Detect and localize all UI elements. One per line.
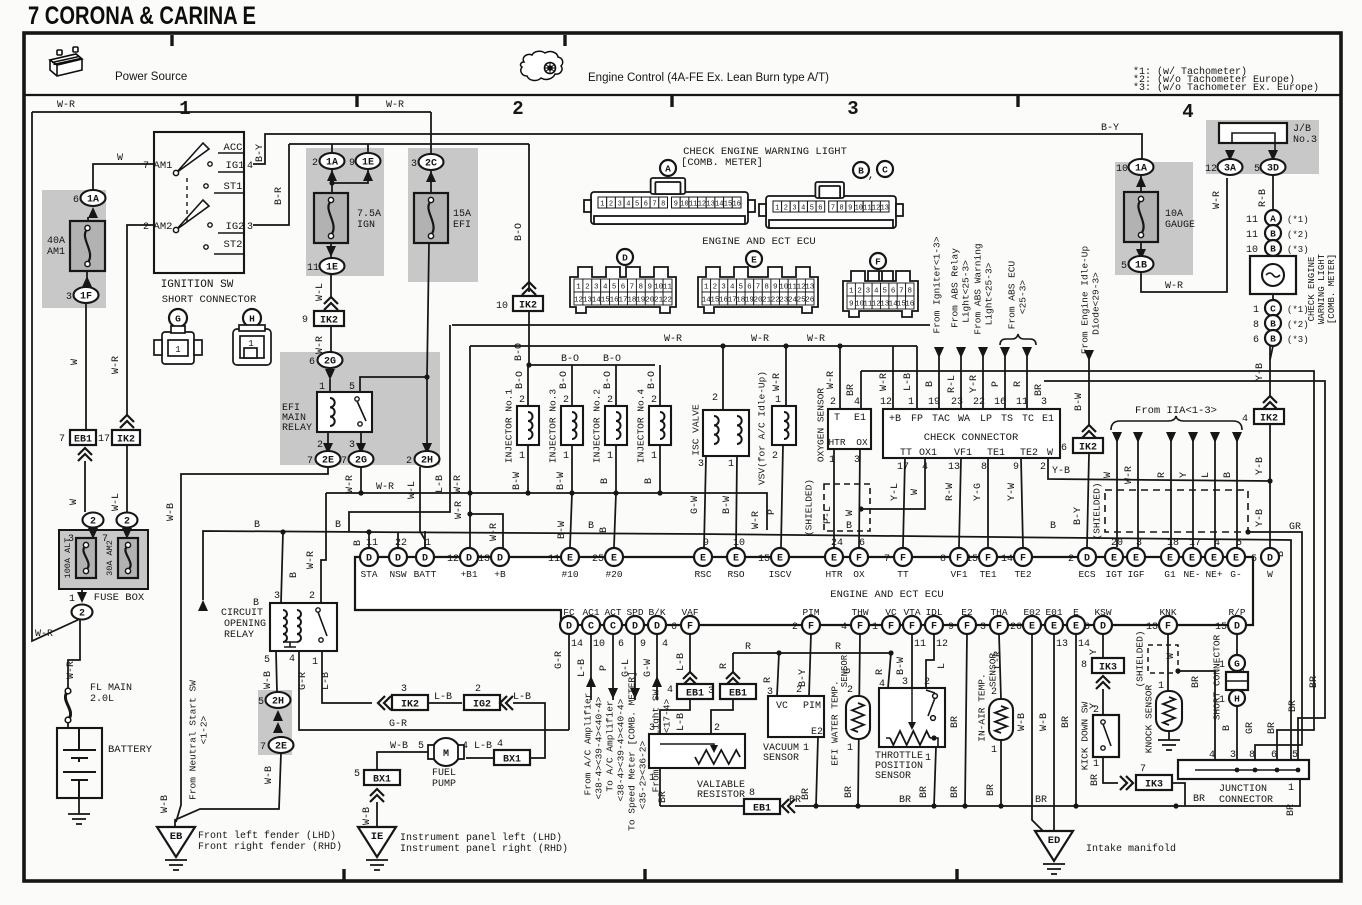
wire pin5 to 2H xyxy=(360,377,427,453)
svg-text:2: 2 xyxy=(585,284,590,292)
svg-text:R/P: R/P xyxy=(1228,607,1245,618)
connector B xyxy=(1265,315,1281,331)
wire injector return xyxy=(659,445,661,493)
svg-text:3: 3 xyxy=(66,292,72,303)
connector IK2 xyxy=(1254,409,1284,425)
svg-text:8: 8 xyxy=(908,288,913,296)
wire Y xyxy=(1102,634,1104,658)
wire BR bus left xyxy=(660,805,746,807)
svg-text:1: 1 xyxy=(728,459,734,470)
ECU pin VF1 xyxy=(950,548,968,566)
svg-text:5: 5 xyxy=(354,769,360,780)
wire BR E1 up xyxy=(860,371,862,409)
svg-text:VTA: VTA xyxy=(903,607,920,618)
svg-text:P: P xyxy=(767,509,778,515)
ECU pin VC xyxy=(882,616,900,634)
svg-text:2: 2 xyxy=(712,393,718,404)
wire injector feed xyxy=(571,365,573,406)
svg-text:D: D xyxy=(422,554,428,565)
svg-text:3: 3 xyxy=(792,205,796,213)
svg-text:VF1: VF1 xyxy=(950,569,967,580)
svg-text:Light<25-3>: Light<25-3> xyxy=(961,260,972,323)
svg-text:PUMP: PUMP xyxy=(432,779,456,790)
svg-text:B: B xyxy=(600,478,611,484)
svg-text:9: 9 xyxy=(703,538,709,549)
ECU pin HTR xyxy=(825,548,843,566)
svg-text:W-L: W-L xyxy=(407,481,418,499)
shading 7.5A IGN xyxy=(306,148,384,276)
junction xyxy=(467,490,472,495)
svg-text:1: 1 xyxy=(847,743,853,754)
svg-text:4: 4 xyxy=(1182,101,1193,123)
connector IK2 xyxy=(392,695,428,711)
svg-text:22: 22 xyxy=(663,297,672,305)
wire G-W xyxy=(656,634,658,700)
wire BR E2 xyxy=(965,634,967,806)
in-air temp capsule xyxy=(989,699,1013,740)
wire xyxy=(1167,660,1169,691)
wire xyxy=(785,346,787,406)
connector IG2 xyxy=(464,695,500,711)
shading 2H 2E xyxy=(258,690,292,755)
wire L xyxy=(1214,440,1216,547)
svg-text:7: 7 xyxy=(1140,764,1146,775)
svg-text:6: 6 xyxy=(309,357,315,368)
ignition lever AM1 xyxy=(173,143,209,176)
svg-text:6: 6 xyxy=(671,622,677,633)
wire W-R left border run xyxy=(32,112,82,641)
svg-text:2: 2 xyxy=(512,98,523,120)
svg-text:7: 7 xyxy=(899,288,904,296)
wire BR rail 371 xyxy=(861,371,1314,760)
arrow IIA xyxy=(1210,432,1220,443)
svg-text:3: 3 xyxy=(411,159,417,170)
svg-text:BR: BR xyxy=(950,716,961,728)
wire W-R +B xyxy=(892,346,894,409)
svg-text:9: 9 xyxy=(647,284,652,292)
ignition contact ST1 xyxy=(204,184,208,188)
wire B to STA xyxy=(368,532,370,548)
svg-text:15A: 15A xyxy=(453,209,471,220)
EFI water temp capsule xyxy=(846,696,870,739)
connector B xyxy=(1265,240,1281,256)
junction xyxy=(998,803,1003,808)
svg-text:W: W xyxy=(910,489,921,495)
ECU pin E xyxy=(1067,616,1085,634)
arrow xyxy=(273,722,283,733)
svg-text:3: 3 xyxy=(698,459,704,470)
wire KNK xyxy=(1167,634,1169,660)
wire to +B xyxy=(470,514,503,548)
svg-text:M: M xyxy=(443,749,449,760)
svg-text:B: B xyxy=(1223,472,1234,478)
svg-text:IG2: IG2 xyxy=(226,221,245,233)
ECU pin PIM xyxy=(802,616,820,634)
svg-text:12: 12 xyxy=(447,554,459,565)
svg-text:B-O: B-O xyxy=(603,354,621,365)
svg-text:2E: 2E xyxy=(275,742,287,753)
wire BR R/P xyxy=(1236,634,1238,655)
svg-text:B/K: B/K xyxy=(648,607,665,618)
relay coil xyxy=(330,398,335,426)
chevron xyxy=(370,789,384,802)
svg-text:1: 1 xyxy=(651,451,657,462)
svg-text:10: 10 xyxy=(680,201,688,209)
svg-text:BR: BR xyxy=(919,786,930,798)
svg-text:9: 9 xyxy=(302,315,308,326)
svg-text:Y-R: Y-R xyxy=(969,375,980,393)
svg-text:L-B: L-B xyxy=(903,373,914,391)
wire xyxy=(330,243,332,257)
connector IK3 xyxy=(1092,658,1124,674)
svg-text:4: 4 xyxy=(922,462,928,473)
svg-text:4: 4 xyxy=(497,739,503,750)
svg-text:B-O: B-O xyxy=(647,371,658,389)
connector 2E xyxy=(269,737,294,753)
svg-text:B-O: B-O xyxy=(559,371,570,389)
wire xyxy=(87,217,89,221)
svg-text:R: R xyxy=(763,677,774,683)
junction xyxy=(1275,768,1280,773)
ECU pin NSW xyxy=(389,548,407,566)
wire link 1A 1E xyxy=(332,170,368,183)
svg-text:(SHIELDED): (SHIELDED) xyxy=(804,479,815,536)
wire W-R gauge loop xyxy=(1141,178,1227,292)
svg-text:17: 17 xyxy=(98,434,110,445)
svg-text:1: 1 xyxy=(991,745,997,756)
svg-text:6: 6 xyxy=(1061,443,1067,454)
svg-text:KNK: KNK xyxy=(1159,607,1176,618)
svg-text:1: 1 xyxy=(576,284,581,292)
svg-text:EB1: EB1 xyxy=(729,689,747,700)
svg-text:IDL: IDL xyxy=(925,607,942,618)
svg-text:4: 4 xyxy=(662,639,668,650)
wire TT xyxy=(903,458,905,547)
svg-text:1: 1 xyxy=(179,98,190,120)
svg-text:NSW: NSW xyxy=(389,569,406,580)
svg-text:*3: (w/o Tachometer Ex. Europ: *3: (w/o Tachometer Ex. Europe) xyxy=(1133,82,1319,94)
svg-text:1: 1 xyxy=(69,594,75,605)
svg-text:ST2: ST2 xyxy=(224,239,243,251)
svg-text:B-Y: B-Y xyxy=(1073,507,1084,525)
svg-text:THA: THA xyxy=(990,607,1007,618)
arrow IIA xyxy=(1166,432,1176,443)
ECU pin BATT xyxy=(416,548,434,566)
svg-text:FC: FC xyxy=(563,607,575,618)
connector 3D xyxy=(1261,159,1286,175)
wire xyxy=(711,700,733,734)
wire W-L to BATT xyxy=(420,467,425,547)
connector D picture pins xyxy=(574,279,673,305)
wire THA xyxy=(999,634,1001,699)
svg-text:1: 1 xyxy=(803,743,809,754)
svg-text:9: 9 xyxy=(674,201,678,209)
svg-text:11: 11 xyxy=(689,201,697,209)
svg-text:BR: BR xyxy=(1286,804,1297,816)
svg-text:9: 9 xyxy=(773,284,778,292)
junction xyxy=(1175,668,1180,673)
wire TE2 xyxy=(1021,458,1023,547)
junction xyxy=(783,343,788,348)
svg-text:IG1: IG1 xyxy=(226,160,245,172)
wire G-R xyxy=(299,651,569,730)
J/B No.3 inner xyxy=(1232,133,1275,152)
svg-text:EB: EB xyxy=(170,831,183,843)
svg-text:LP: LP xyxy=(980,414,992,425)
connector E picture xyxy=(698,267,818,313)
connector 2 xyxy=(117,513,138,528)
svg-text:KNOCK SENSOR: KNOCK SENSOR xyxy=(1144,685,1155,754)
wire B rail long xyxy=(203,531,1291,760)
wire B-W to #10 xyxy=(570,493,572,547)
svg-text:5: 5 xyxy=(258,697,264,708)
svg-text:BR: BR xyxy=(950,786,961,798)
shading EFI main relay xyxy=(280,352,440,465)
wire xyxy=(714,409,723,411)
svg-text:From Igniter<1-3>: From Igniter<1-3> xyxy=(932,236,943,333)
svg-text:(*2): (*2) xyxy=(1287,320,1309,330)
svg-text:IG2: IG2 xyxy=(473,700,491,711)
svg-text:F: F xyxy=(985,554,991,565)
connector IK2 xyxy=(1073,438,1103,454)
svg-text:7: 7 xyxy=(630,284,635,292)
ECU pin KNK xyxy=(1159,616,1177,634)
connector 2E xyxy=(316,451,341,467)
svg-text:B: B xyxy=(254,520,260,531)
svg-text:B-R: B-R xyxy=(274,187,285,205)
throttle potentiometer xyxy=(890,688,937,745)
svg-text:W-R: W-R xyxy=(1124,466,1135,484)
svg-text:2: 2 xyxy=(124,517,130,528)
wire B-Y PIM xyxy=(809,634,811,696)
svg-text:RSC: RSC xyxy=(694,569,711,580)
svg-text:D: D xyxy=(1234,622,1240,633)
tick bottom border 1 xyxy=(342,869,345,880)
svg-text:4: 4 xyxy=(874,288,879,296)
svg-text:2: 2 xyxy=(924,677,930,688)
svg-text:L-R: L-R xyxy=(993,651,1004,669)
connector F picture xyxy=(843,271,918,317)
svg-text:5: 5 xyxy=(635,201,639,209)
svg-text:THW: THW xyxy=(851,607,868,618)
svg-text:To Speed Meter [COMB. METER]: To Speed Meter [COMB. METER] xyxy=(627,671,638,831)
wire B xyxy=(1236,706,1238,760)
ECU pin E02 xyxy=(1023,616,1041,634)
svg-text:3: 3 xyxy=(649,723,655,734)
shading 10A GAUGE xyxy=(1115,162,1193,275)
svg-text:5: 5 xyxy=(418,741,424,752)
svg-text:11: 11 xyxy=(548,554,560,565)
wire L-B VAF xyxy=(689,634,691,672)
wire L IDL xyxy=(926,634,934,688)
svg-text:B: B xyxy=(1270,333,1276,344)
svg-text:10: 10 xyxy=(1246,245,1258,256)
svg-text:L-B: L-B xyxy=(434,692,452,703)
svg-text:R: R xyxy=(719,663,730,669)
throttle base wire xyxy=(886,738,938,747)
svg-text:INJECTOR No.1: INJECTOR No.1 xyxy=(504,389,515,463)
svg-text:GR: GR xyxy=(1245,722,1256,734)
svg-text:5: 5 xyxy=(264,655,270,666)
connector A picture xyxy=(584,178,755,224)
svg-text:NE-: NE- xyxy=(1183,569,1200,580)
wire Y xyxy=(1192,440,1194,547)
svg-text:IK2: IK2 xyxy=(1260,414,1278,425)
wire G-L xyxy=(634,634,636,700)
svg-text:W-B: W-B xyxy=(160,795,171,813)
injector No.4 box xyxy=(649,406,671,445)
svg-text:1: 1 xyxy=(1253,305,1259,316)
arrow from harness xyxy=(956,347,966,358)
arrow xyxy=(586,676,596,687)
svg-text:2: 2 xyxy=(309,591,315,602)
svg-text:Instrument panel right (RHD): Instrument panel right (RHD) xyxy=(400,843,568,855)
svg-text:6: 6 xyxy=(618,639,624,650)
chevron xyxy=(782,799,795,813)
svg-text:3: 3 xyxy=(866,288,871,296)
wire xyxy=(276,651,277,692)
svg-text:8: 8 xyxy=(764,284,769,292)
svg-text:9: 9 xyxy=(849,301,854,309)
svg-text:EB1: EB1 xyxy=(686,689,704,700)
svg-text:BX1: BX1 xyxy=(503,755,521,766)
svg-text:EB1: EB1 xyxy=(753,804,771,815)
svg-text:C: C xyxy=(882,164,888,175)
junction xyxy=(858,506,863,511)
wire xyxy=(360,432,362,446)
wire xyxy=(1272,256,1274,262)
ECU pin TE2 xyxy=(1014,548,1032,566)
wire B to #20 xyxy=(614,493,616,547)
svg-text:9: 9 xyxy=(640,639,646,650)
svg-text:2: 2 xyxy=(317,440,323,451)
arrow IIA xyxy=(1232,432,1242,443)
connector 2G xyxy=(318,352,343,368)
wire feed rail xyxy=(289,143,529,145)
connector 3A xyxy=(1218,159,1243,175)
svg-text:From Engine Idle-Up: From Engine Idle-Up xyxy=(1080,246,1091,355)
svg-text:B: B xyxy=(1222,725,1233,731)
svg-text:W: W xyxy=(845,510,856,516)
svg-text:4: 4 xyxy=(1209,750,1215,761)
svg-text:(*3): (*3) xyxy=(1287,335,1309,345)
svg-text:IN-AIR TEMP.: IN-AIR TEMP. xyxy=(977,673,988,741)
svg-text:IK3: IK3 xyxy=(1145,780,1163,791)
wire xyxy=(331,170,333,193)
svg-text:Y-B: Y-B xyxy=(1052,466,1070,477)
svg-text:5: 5 xyxy=(612,284,617,292)
svg-text:W-B: W-B xyxy=(264,766,275,784)
wire R-L xyxy=(960,347,962,409)
arrow xyxy=(1268,150,1278,161)
wire L-B xyxy=(322,651,372,703)
svg-text:5: 5 xyxy=(349,382,355,393)
svg-text:2: 2 xyxy=(406,456,412,467)
svg-text:7: 7 xyxy=(341,456,347,467)
svg-text:(*2): (*2) xyxy=(1287,230,1309,240)
svg-text:G: G xyxy=(843,668,854,674)
svg-text:H: H xyxy=(249,313,255,324)
svg-text:D: D xyxy=(1100,622,1106,633)
ECU pin W xyxy=(1261,548,1279,566)
wire R rail xyxy=(733,652,891,654)
ECU pin NE+ xyxy=(1205,548,1223,566)
svg-text:2: 2 xyxy=(90,517,96,528)
svg-text:PIM: PIM xyxy=(803,701,821,712)
svg-text:E: E xyxy=(1233,554,1239,565)
svg-text:6: 6 xyxy=(1253,335,1259,346)
svg-text:W-B: W-B xyxy=(263,671,274,689)
wire W 1F to EB1 xyxy=(85,303,87,430)
svg-text:EFI WATER TEMP.: EFI WATER TEMP. xyxy=(830,680,841,766)
shading J/B No.3 xyxy=(1206,120,1319,174)
svg-text:E1: E1 xyxy=(854,413,866,424)
wire THW xyxy=(858,634,860,806)
svg-text:1: 1 xyxy=(649,773,655,784)
kick down switch xyxy=(1101,720,1111,750)
svg-text:F: F xyxy=(956,554,962,565)
svg-text:R: R xyxy=(875,669,886,675)
wire R xyxy=(1170,440,1172,547)
ground IE xyxy=(358,827,396,857)
svg-text:(*3): (*3) xyxy=(1287,245,1309,255)
connector F picture pins xyxy=(847,283,915,309)
ground EB xyxy=(157,827,195,857)
svg-text:CIRCUIT: CIRCUIT xyxy=(221,608,263,619)
svg-text:(SHIELDED): (SHIELDED) xyxy=(1135,630,1146,687)
svg-text:6: 6 xyxy=(621,284,626,292)
svg-text:2: 2 xyxy=(830,397,836,408)
svg-text:(*1): (*1) xyxy=(1287,215,1309,225)
chevron IK2 xyxy=(120,415,134,428)
ISC valve box xyxy=(703,410,749,456)
junction xyxy=(657,490,662,495)
svg-text:BR: BR xyxy=(846,384,857,396)
svg-text:No.3: No.3 xyxy=(1293,135,1317,146)
injector No.3 box xyxy=(561,406,583,445)
svg-text:CONNECTOR: CONNECTOR xyxy=(1219,795,1273,806)
svg-text:7: 7 xyxy=(831,205,835,213)
svg-text:E: E xyxy=(1029,622,1035,633)
svg-text:Power Source: Power Source xyxy=(115,71,187,83)
wire xyxy=(279,736,281,737)
svg-text:4: 4 xyxy=(667,685,673,696)
throttle sensor box xyxy=(879,688,945,747)
svg-text:15: 15 xyxy=(1215,622,1227,633)
svg-text:10: 10 xyxy=(855,205,863,213)
ECU pin B/K xyxy=(648,616,666,634)
svg-text:6: 6 xyxy=(747,284,752,292)
svg-text:T: T xyxy=(834,413,840,424)
svg-text:E: E xyxy=(1189,554,1195,565)
svg-text:2: 2 xyxy=(79,609,85,620)
wire W-B E01 xyxy=(1053,634,1055,831)
svg-text:VSV(for A/C Idle-Up): VSV(for A/C Idle-Up) xyxy=(757,371,768,485)
junction xyxy=(569,490,574,495)
svg-text:W-B: W-B xyxy=(166,503,177,521)
svg-text:7: 7 xyxy=(756,284,761,292)
connector 2 xyxy=(83,513,104,528)
svg-text:L: L xyxy=(1201,472,1212,478)
svg-text:From ABS Relay: From ABS Relay xyxy=(950,248,961,328)
svg-text:2: 2 xyxy=(1068,554,1074,565)
svg-text:ISCV: ISCV xyxy=(769,569,792,580)
arrow IIA xyxy=(1112,432,1122,443)
wire xyxy=(469,547,471,548)
svg-text:L-B: L-B xyxy=(321,672,332,690)
svg-text:B: B xyxy=(289,572,300,578)
svg-text:22: 22 xyxy=(395,538,407,549)
